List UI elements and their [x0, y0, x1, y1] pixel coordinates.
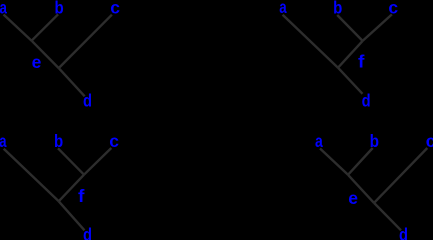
tree 1 (top-left) edges: [4, 14, 112, 96]
tree1 edge a-e: [4, 15, 32, 41]
svg-text:b: b: [370, 132, 379, 151]
svg-text:f: f: [358, 51, 365, 71]
svg-text:a: a: [0, 0, 7, 18]
svg-text:d: d: [83, 91, 92, 110]
tree4 edge b-e: [348, 148, 373, 175]
tree4 edge c-j4: [374, 148, 427, 203]
tree 2 (top-right) edges: [283, 14, 392, 93]
svg-text:b: b: [333, 0, 342, 18]
tree4 edge a-e: [320, 149, 348, 175]
tree2 edge j2-d: [338, 68, 363, 94]
tree 3 (bottom-left) edges: [4, 148, 112, 230]
svg-text:e: e: [32, 52, 42, 72]
tree2 edge c-f: [363, 14, 392, 41]
svg-text:b: b: [54, 132, 63, 151]
tree3 edge f-j3: [59, 175, 84, 202]
svg-text:f: f: [78, 186, 85, 206]
tree1 edge c-j1: [59, 15, 112, 68]
tree2 edge b-f: [337, 15, 362, 41]
svg-text:a: a: [0, 132, 7, 151]
tree 4 (bottom-right) edges: [320, 148, 427, 230]
svg-text:d: d: [399, 225, 408, 240]
tree4 edge j4-d: [374, 203, 401, 230]
svg-text:c: c: [388, 0, 398, 18]
tree3 edge b-f: [58, 148, 84, 174]
svg-text:e: e: [348, 188, 358, 208]
svg-text:c: c: [426, 131, 433, 151]
tree2 edge a-j2: [283, 15, 338, 68]
tree1 edge j1-d: [59, 68, 85, 96]
tree1 edge b-e: [32, 14, 58, 40]
svg-text:c: c: [110, 0, 120, 18]
tree4 edge e-j4: [348, 175, 374, 203]
tree3 edge a-j3: [4, 149, 59, 202]
tree3 edge c-f: [84, 148, 111, 175]
svg-text:a: a: [315, 132, 323, 151]
tree3 edge j3-d: [59, 201, 85, 230]
svg-text:d: d: [362, 91, 371, 110]
svg-text:a: a: [279, 0, 287, 18]
svg-text:b: b: [54, 0, 63, 18]
svg-text:c: c: [109, 131, 119, 151]
tree1 edge e-j1: [32, 41, 59, 68]
tree2 edge f-j2: [338, 41, 363, 68]
svg-text:d: d: [83, 225, 92, 240]
